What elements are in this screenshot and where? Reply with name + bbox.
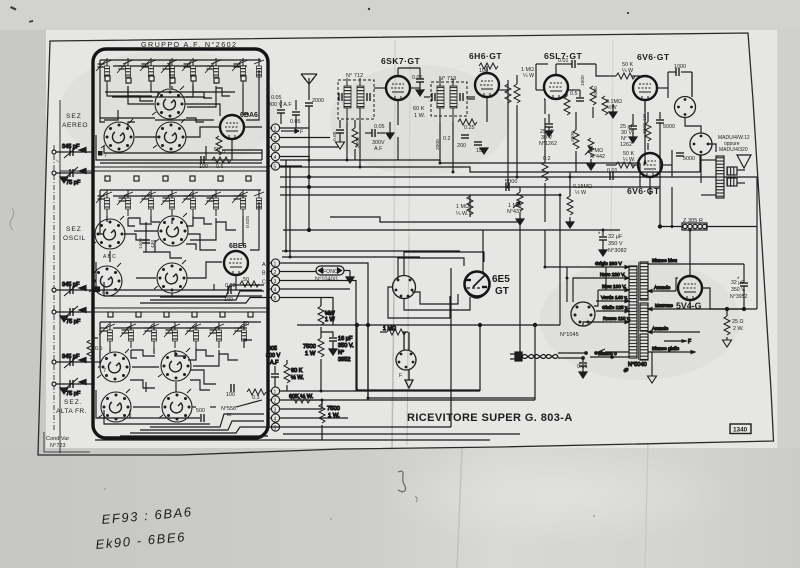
power transformer windings bbox=[629, 262, 648, 360]
svg-text:2 W.: 2 W. bbox=[733, 326, 744, 332]
svg-text:0.2: 0.2 bbox=[443, 136, 451, 142]
5000 cap right bbox=[656, 112, 675, 135]
svg-text:0.25: 0.25 bbox=[464, 125, 475, 131]
6V6 tube upper bbox=[633, 76, 657, 100]
5000 + 1M pot n432 bbox=[506, 183, 509, 191]
svg-text:N°3952: N°3952 bbox=[730, 294, 747, 300]
oscil caps/res bottom bbox=[228, 286, 231, 294]
Z305R choke bbox=[660, 218, 757, 230]
svg-text:16 μF: 16 μF bbox=[338, 336, 353, 342]
svg-text:2000: 2000 bbox=[435, 139, 441, 150]
svg-text:32 μF: 32 μF bbox=[608, 234, 623, 240]
svg-text:5000: 5000 bbox=[663, 124, 675, 130]
pot 1M n442 bbox=[588, 138, 594, 157]
svg-text:N°1040/1: N°1040/1 bbox=[315, 277, 338, 283]
aereo trimmer box row bbox=[105, 76, 246, 83]
svg-text:Arancio: Arancio bbox=[654, 285, 671, 291]
svg-text:300 V: 300 V bbox=[266, 353, 280, 359]
svg-text:FONO: FONO bbox=[323, 269, 338, 275]
cluster 0.25 / 200 / 150 bbox=[458, 119, 477, 125]
alta top bus bbox=[100, 321, 261, 323]
section divider oscil/alta bbox=[93, 307, 268, 309]
svg-text:Grigio 280 V: Grigio 280 V bbox=[595, 261, 622, 267]
svg-text:0.05: 0.05 bbox=[290, 119, 301, 125]
7500 1W right bbox=[321, 400, 323, 404]
FONO jack bbox=[315, 266, 354, 283]
7500 1W resistor bbox=[318, 338, 324, 357]
svg-text:2: 2 bbox=[274, 136, 277, 142]
svg-text:60K ½ W.: 60K ½ W. bbox=[289, 393, 314, 400]
svg-text:60 K: 60 K bbox=[413, 106, 425, 112]
svg-text:Bianco bleu: Bianco bleu bbox=[652, 258, 677, 264]
svg-text:1 W: 1 W bbox=[305, 351, 316, 357]
svg-text:300 V A.F: 300 V A.F bbox=[268, 102, 292, 108]
svg-text:75 pF: 75 pF bbox=[66, 180, 81, 186]
6V6 lower wires bbox=[606, 150, 695, 187]
bus y325 bbox=[297, 324, 560, 326]
svg-text:7: 7 bbox=[101, 290, 104, 296]
svg-text:5V4-G: 5V4-G bbox=[676, 301, 702, 311]
varcap oscil 345pF bbox=[52, 284, 93, 296]
output socket A bbox=[675, 72, 696, 118]
rotary switch S3a bbox=[97, 349, 130, 382]
svg-text:A B C: A B C bbox=[103, 254, 116, 260]
svg-text:N°442: N°442 bbox=[590, 154, 605, 160]
6E5 tube bbox=[465, 230, 490, 298]
rotary switch S1c bbox=[153, 119, 186, 152]
svg-text:Bianco giallo: Bianco giallo bbox=[652, 346, 680, 352]
oscil coil units row bbox=[96, 190, 264, 216]
6SK7 wires bbox=[332, 68, 426, 160]
aereo 100 cap / 0.5 res bbox=[201, 156, 204, 164]
oscil trimmer box row bbox=[105, 176, 251, 181]
1340 stamp box bbox=[730, 424, 751, 434]
aereo extra bus bbox=[100, 162, 262, 164]
6H6 tube bbox=[475, 73, 499, 97]
svg-text:100: 100 bbox=[479, 68, 488, 74]
svg-text:5000: 5000 bbox=[593, 86, 599, 97]
svg-text:75 pF: 75 pF bbox=[66, 391, 81, 397]
svg-text:3: 3 bbox=[274, 146, 277, 152]
bus y195 bbox=[280, 194, 560, 196]
svg-text:SEZ: SEZ bbox=[66, 113, 82, 120]
bus y160 bbox=[280, 160, 640, 163]
svg-text:N°432: N°432 bbox=[507, 209, 522, 215]
svg-text:350 V: 350 V bbox=[608, 241, 623, 247]
connector stub wires into box bbox=[268, 128, 271, 427]
crease fold center bbox=[392, 290, 394, 450]
oscil nested bundle bbox=[140, 298, 272, 304]
6E5 socket bbox=[393, 276, 416, 299]
rotary switch S3b bbox=[158, 348, 191, 381]
trimmer squares left bbox=[95, 287, 100, 292]
svg-text:N°3082: N°3082 bbox=[608, 248, 627, 254]
svg-text:1: 1 bbox=[274, 262, 277, 268]
connector strip aereo 1-5 bbox=[271, 124, 279, 171]
svg-text:4: 4 bbox=[274, 288, 277, 294]
svg-text:3: 3 bbox=[274, 408, 277, 414]
svg-text:100: 100 bbox=[226, 392, 235, 398]
rotary switch S1b bbox=[101, 119, 134, 152]
rotary switch S2d bbox=[154, 260, 187, 293]
rotary switch S3d bbox=[159, 389, 192, 422]
outer frame border bbox=[38, 33, 774, 455]
svg-text:0.05: 0.05 bbox=[412, 75, 423, 81]
svg-text:60 K: 60 K bbox=[291, 368, 303, 374]
svg-text:1 MΩ: 1 MΩ bbox=[383, 326, 396, 332]
svg-text:N°723: N°723 bbox=[50, 443, 66, 449]
svg-text:0.01: 0.01 bbox=[558, 58, 569, 64]
svg-text:75 pF: 75 pF bbox=[66, 319, 81, 325]
svg-text:N° 712: N° 712 bbox=[346, 73, 363, 79]
rotary switch S1a bbox=[152, 86, 185, 119]
svg-text:6V6·GT: 6V6·GT bbox=[637, 52, 670, 62]
svg-text:1: 1 bbox=[274, 127, 277, 133]
alta coil units row bbox=[99, 322, 249, 348]
svg-text:0.2: 0.2 bbox=[543, 156, 551, 162]
svg-text:5: 5 bbox=[274, 296, 277, 302]
faint pencil margin mark bbox=[10, 160, 60, 230]
varcap alta 345pF bbox=[52, 356, 93, 368]
svg-text:1262: 1262 bbox=[620, 142, 632, 148]
svg-text:0.05: 0.05 bbox=[271, 95, 282, 101]
svg-text:Rosso 110 v.: Rosso 110 v. bbox=[603, 316, 630, 322]
svg-text:F: F bbox=[399, 373, 402, 379]
svg-text:N°1262: N°1262 bbox=[539, 141, 557, 147]
oscil staircases bbox=[128, 218, 152, 224]
svg-text:Ω: Ω bbox=[222, 149, 226, 154]
svg-text:AEREO: AEREO bbox=[62, 122, 88, 129]
connector strip alta 1-5 bbox=[271, 387, 279, 432]
svg-text:50: 50 bbox=[243, 321, 249, 327]
svg-text:½W: ½W bbox=[607, 104, 617, 111]
svg-text:MADU/4/320: MADU/4/320 bbox=[719, 147, 748, 153]
svg-text:0.5: 0.5 bbox=[570, 91, 578, 97]
antenna bbox=[301, 74, 324, 232]
alta caps bbox=[201, 414, 204, 422]
svg-text:50: 50 bbox=[243, 277, 249, 283]
svg-text:7500: 7500 bbox=[303, 344, 316, 350]
60K 1/2W vertical bbox=[286, 360, 288, 364]
25uF 30V right bbox=[629, 126, 637, 129]
svg-text:3952: 3952 bbox=[338, 357, 350, 363]
rotary switch S2b bbox=[155, 213, 188, 246]
svg-text:0.025: 0.025 bbox=[245, 216, 251, 228]
crease hook mark bbox=[398, 471, 406, 492]
svg-text:¼ W.: ¼ W. bbox=[456, 211, 468, 217]
svg-text:1000: 1000 bbox=[580, 75, 586, 86]
primary taps bbox=[567, 261, 630, 357]
varcap aereo 75pF bbox=[52, 148, 93, 184]
svg-text:5000: 5000 bbox=[505, 179, 517, 185]
svg-text:1340: 1340 bbox=[733, 427, 748, 434]
caps under 712 bbox=[336, 130, 344, 133]
svg-text:1 W.: 1 W. bbox=[328, 413, 340, 419]
svg-text:0.5: 0.5 bbox=[95, 346, 103, 352]
svg-text:N°1045: N°1045 bbox=[560, 332, 579, 338]
6SL7 wires bbox=[536, 58, 651, 228]
label column line bbox=[59, 100, 61, 453]
5V4G rectifier bbox=[678, 276, 702, 300]
svg-text:1000: 1000 bbox=[674, 64, 686, 70]
svg-text:¼ W.: ¼ W. bbox=[623, 157, 635, 163]
svg-text:N° 713: N° 713 bbox=[439, 76, 456, 82]
pencil dots bbox=[104, 488, 106, 490]
svg-text:¼ W: ¼ W bbox=[523, 73, 535, 79]
aereo top bus bbox=[100, 59, 261, 61]
svg-text:F: F bbox=[688, 339, 691, 345]
handwritten notes bbox=[95, 504, 193, 552]
1W resistor vertical above 7500 bbox=[320, 298, 322, 307]
svg-text:ALTA FR.: ALTA FR. bbox=[56, 408, 87, 415]
32uF 350V N3952 cap right bbox=[723, 264, 749, 347]
lower socket bbox=[396, 332, 416, 388]
mains plug and cord bbox=[510, 349, 629, 378]
varcap alta 75pF bbox=[52, 358, 93, 395]
svg-text:A.F: A.F bbox=[270, 360, 279, 366]
rotary switch S2c bbox=[89, 263, 122, 296]
16uF 350V N°3952 bbox=[321, 332, 333, 337]
svg-text:0.01: 0.01 bbox=[577, 364, 588, 370]
output socket B bbox=[690, 133, 712, 155]
6SK7 tube bbox=[386, 76, 410, 100]
svg-text:OSCIL: OSCIL bbox=[63, 235, 86, 242]
bus y217 bbox=[330, 217, 520, 222]
svg-text:1: 1 bbox=[274, 390, 277, 396]
svg-text:Arancio: Arancio bbox=[652, 326, 669, 332]
alta staircases bbox=[131, 350, 155, 356]
voltage selector socket bbox=[560, 302, 595, 338]
tube 6BE6 bbox=[224, 251, 248, 275]
tube 6BA6 bbox=[220, 115, 244, 139]
GRUPPO AF thick box bbox=[93, 49, 268, 438]
svg-text:A: A bbox=[262, 262, 266, 268]
bus y187 bbox=[280, 186, 660, 188]
svg-text:5: 5 bbox=[274, 165, 277, 171]
svg-text:0.5: 0.5 bbox=[216, 164, 224, 170]
svg-text:430: 430 bbox=[150, 240, 156, 248]
svg-text:εε: εε bbox=[227, 412, 232, 418]
verticals joining tube row to buses bbox=[346, 122, 348, 160]
svg-text:Marrone: Marrone bbox=[655, 303, 673, 309]
svg-text:2: 2 bbox=[274, 399, 277, 405]
svg-text:7500: 7500 bbox=[327, 406, 340, 412]
svg-text:6BA6: 6BA6 bbox=[240, 112, 258, 119]
svg-text:350 V.: 350 V. bbox=[731, 287, 746, 293]
svg-text:200: 200 bbox=[457, 143, 466, 149]
6H6 wires bbox=[435, 63, 535, 225]
IF transformer N713 bbox=[431, 76, 467, 122]
svg-text:N°: N° bbox=[338, 350, 344, 356]
svg-text:0.05: 0.05 bbox=[374, 124, 385, 130]
oscil wires bbox=[106, 216, 108, 222]
oscil top bus bbox=[100, 189, 261, 191]
svg-text:7: 7 bbox=[104, 153, 107, 159]
0.01 cap to gnd bbox=[582, 358, 584, 362]
svg-text:6BE6: 6BE6 bbox=[229, 243, 247, 250]
alta nested bundle to bottom bus bbox=[130, 427, 280, 433]
svg-text:Verde 140 v.: Verde 140 v. bbox=[601, 295, 628, 301]
svg-text:5: 5 bbox=[274, 426, 277, 432]
svg-text:25 Ω: 25 Ω bbox=[732, 319, 744, 325]
svg-text:1 W: 1 W bbox=[325, 317, 335, 323]
bottom long bus bbox=[95, 439, 490, 441]
svg-text:4: 4 bbox=[274, 155, 277, 161]
32uF 350V N3082 bbox=[598, 230, 627, 256]
6E5 loop wires bbox=[388, 252, 484, 318]
svg-text:345 pF: 345 pF bbox=[62, 354, 80, 360]
coupling cap 0.05 300V AF top bbox=[268, 95, 304, 136]
cap 0.05 next bbox=[292, 112, 300, 115]
section divider aereo/oscil bbox=[93, 166, 268, 168]
svg-text:005: 005 bbox=[268, 346, 277, 352]
svg-text:3: 3 bbox=[274, 279, 277, 285]
svg-text:½ W.: ½ W. bbox=[291, 374, 304, 381]
bus y167 bbox=[280, 167, 700, 172]
svg-text:6E5: 6E5 bbox=[492, 274, 510, 285]
verticals center bbox=[285, 160, 287, 251]
svg-text:1 MΩ: 1 MΩ bbox=[456, 204, 469, 210]
rotary switch S3c bbox=[98, 389, 131, 422]
svg-text:1 W.: 1 W. bbox=[414, 113, 426, 119]
svg-text:N°5040: N°5040 bbox=[628, 362, 647, 368]
aereo coil units row bbox=[96, 58, 264, 84]
output transformer + speaker bbox=[701, 135, 751, 198]
connector strip oscil 1-5 bbox=[262, 259, 280, 302]
svg-text:A.F: A.F bbox=[374, 146, 383, 152]
svg-text:2000: 2000 bbox=[312, 98, 324, 104]
bus y251 bbox=[282, 250, 460, 252]
ink blob speck bbox=[622, 366, 629, 373]
svg-text:345 pF: 345 pF bbox=[62, 144, 80, 150]
svg-text:Giallo 125 v.: Giallo 125 v. bbox=[602, 305, 628, 311]
svg-text:345 pF: 345 pF bbox=[62, 282, 80, 288]
bus y230 bbox=[283, 229, 620, 231]
6V6 tube lower bbox=[638, 153, 662, 177]
IF transformer N712 bbox=[338, 73, 374, 122]
wires from aereo conns bbox=[280, 127, 310, 129]
svg-text:7: 7 bbox=[103, 368, 106, 374]
svg-text:6H6·GT: 6H6·GT bbox=[469, 51, 502, 61]
aereo wires bbox=[107, 84, 152, 96]
alta trimmer box row bbox=[108, 312, 253, 317]
varcap oscil 75pF bbox=[52, 286, 93, 323]
varcap aereo 345pF bbox=[52, 146, 93, 158]
6SL7 tube bbox=[544, 75, 568, 99]
secondary taps bbox=[628, 258, 757, 383]
svg-text:Nero 220 V.: Nero 220 V. bbox=[600, 272, 625, 278]
svg-text:SEZ.: SEZ. bbox=[64, 399, 83, 406]
svg-text:0.3: 0.3 bbox=[252, 395, 260, 401]
svg-text:0.05: 0.05 bbox=[332, 131, 338, 141]
rotary switch S2a bbox=[92, 216, 125, 249]
tuning gang dash line bbox=[53, 145, 55, 432]
wires from oscil conns bbox=[280, 263, 536, 398]
svg-text:500: 500 bbox=[196, 408, 205, 414]
1Mohm resistor horizontal at 332 bbox=[380, 331, 387, 333]
bus y257 bbox=[282, 256, 420, 258]
svg-text:½ W: ½ W bbox=[575, 189, 587, 196]
svg-text:50: 50 bbox=[214, 147, 220, 153]
bus y177 bbox=[280, 176, 757, 178]
svg-text:RICEVITORE SUPER G. 803-A: RICEVITORE SUPER G. 803-A bbox=[407, 412, 573, 424]
margin specks bbox=[10, 6, 629, 23]
svg-text:2: 2 bbox=[274, 270, 277, 276]
svg-text:6SK7·GT: 6SK7·GT bbox=[381, 56, 420, 66]
6V6 upper wires bbox=[608, 62, 692, 112]
svg-text:0.01: 0.01 bbox=[607, 168, 618, 174]
svg-text:Cond Var: Cond Var bbox=[46, 436, 69, 442]
svg-text:350 V.: 350 V. bbox=[338, 343, 354, 349]
svg-text:GRUPPO A.F. N°2602: GRUPPO A.F. N°2602 bbox=[141, 40, 237, 49]
svg-text:100: 100 bbox=[199, 164, 208, 170]
25uF 30V N1262 left bbox=[545, 124, 553, 127]
wires from alta conns bbox=[280, 390, 481, 392]
junction dots on buses bbox=[285, 159, 692, 402]
svg-text:4: 4 bbox=[274, 417, 277, 423]
svg-text:5000: 5000 bbox=[683, 156, 695, 162]
svg-text:SEZ: SEZ bbox=[66, 226, 82, 233]
alta wires bbox=[109, 348, 111, 352]
25ohm 2W bbox=[726, 309, 728, 316]
svg-text:GT: GT bbox=[495, 286, 509, 297]
svg-text:B: B bbox=[262, 271, 266, 277]
svg-text:6V6·GT: 6V6·GT bbox=[627, 186, 660, 196]
aereo staircases bbox=[128, 86, 153, 101]
